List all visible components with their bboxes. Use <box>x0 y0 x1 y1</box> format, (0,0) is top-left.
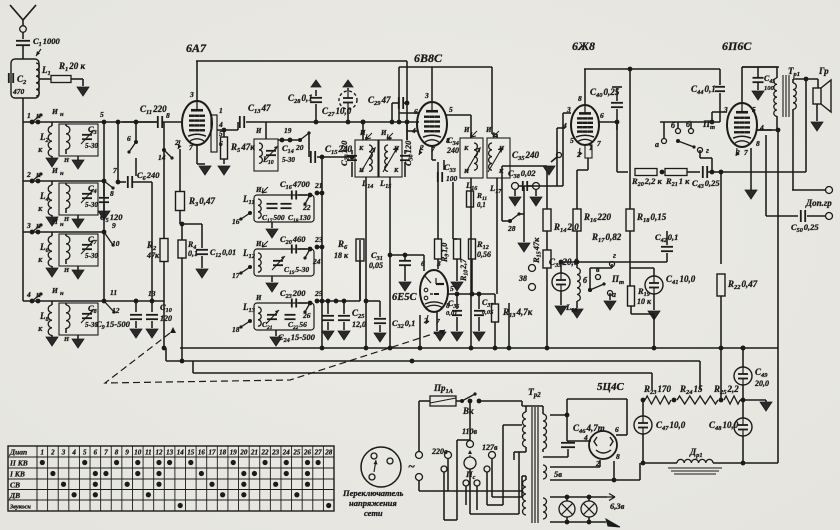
svg-text:Доп.гр: Доп.гр <box>805 198 832 208</box>
svg-text:23: 23 <box>271 448 280 456</box>
svg-text:Вк: Вк <box>462 406 474 416</box>
svg-text:5: 5 <box>83 448 87 456</box>
svg-text:8: 8 <box>115 448 119 456</box>
svg-text:470: 470 <box>12 87 25 96</box>
svg-text:И: И <box>485 126 492 134</box>
svg-text:10 к: 10 к <box>637 297 652 306</box>
svg-text:220в: 220в <box>431 447 448 456</box>
svg-text:5-30: 5-30 <box>282 156 295 164</box>
svg-text:38: 38 <box>518 274 527 283</box>
svg-text:н: н <box>60 111 64 118</box>
svg-text:н: н <box>60 290 64 297</box>
svg-text:И: И <box>255 186 262 194</box>
svg-text:К: К <box>358 145 364 152</box>
svg-text:12: 12 <box>155 448 163 456</box>
svg-text:12,0: 12,0 <box>352 320 366 329</box>
svg-text:5: 5 <box>100 110 104 119</box>
svg-text:Звукосн: Звукосн <box>9 504 31 511</box>
svg-text:4: 4 <box>71 448 76 456</box>
svg-text:240: 240 <box>446 146 459 155</box>
svg-text:7: 7 <box>189 143 193 152</box>
svg-text:17: 17 <box>232 271 240 280</box>
svg-text:8: 8 <box>166 111 170 120</box>
svg-text:К: К <box>37 257 43 264</box>
svg-text:13: 13 <box>148 289 156 298</box>
svg-text:24: 24 <box>312 257 321 266</box>
svg-text:16: 16 <box>198 448 206 456</box>
svg-text:19: 19 <box>230 448 238 456</box>
svg-text:10: 10 <box>134 448 142 456</box>
svg-text:3: 3 <box>26 221 31 230</box>
svg-text:8: 8 <box>110 189 114 198</box>
svg-text:5-30: 5-30 <box>85 142 98 150</box>
svg-text:И: И <box>255 240 262 248</box>
svg-text:4: 4 <box>26 290 31 299</box>
svg-text:6Е5С: 6Е5С <box>392 292 418 303</box>
svg-text:ДВ: ДВ <box>9 491 20 500</box>
svg-text:7: 7 <box>597 139 601 148</box>
svg-text:И: И <box>51 217 59 226</box>
svg-text:21: 21 <box>250 448 258 456</box>
svg-text:120: 120 <box>160 314 172 323</box>
svg-text:7: 7 <box>104 448 108 456</box>
svg-text:14: 14 <box>177 448 185 456</box>
svg-text:Н: Н <box>63 336 70 343</box>
svg-text:R1547к: R1547к <box>531 237 543 264</box>
svg-text:20: 20 <box>239 448 248 456</box>
svg-text:100: 100 <box>446 174 458 183</box>
svg-text:18: 18 <box>232 325 240 334</box>
svg-text:R91,0: R91,0 <box>440 243 450 263</box>
svg-text:5-30: 5-30 <box>85 201 98 209</box>
svg-text:И: И <box>51 107 59 116</box>
svg-text:К: К <box>463 145 469 152</box>
svg-text:6: 6 <box>615 425 619 434</box>
svg-text:I КВ: I КВ <box>9 470 25 479</box>
svg-text:6: 6 <box>414 107 418 116</box>
svg-text:7: 7 <box>113 166 117 175</box>
svg-text:3: 3 <box>189 90 194 99</box>
svg-text:1: 1 <box>27 111 31 120</box>
svg-text:110в: 110в <box>462 427 478 436</box>
svg-text:а: а <box>655 140 659 149</box>
svg-text:19: 19 <box>284 126 292 135</box>
svg-text:9: 9 <box>112 221 116 230</box>
svg-text:К: К <box>393 167 399 174</box>
svg-text:И: И <box>255 127 262 135</box>
svg-text:6,3в: 6,3в <box>610 501 625 511</box>
svg-text:К: К <box>37 206 43 213</box>
svg-text:Н: Н <box>35 292 42 299</box>
svg-text:Диап: Диап <box>9 448 27 457</box>
svg-text:20: 20 <box>295 143 304 152</box>
svg-text:18 к: 18 к <box>334 251 349 260</box>
svg-text:1: 1 <box>219 106 223 115</box>
svg-text:5: 5 <box>570 136 574 145</box>
svg-text:28: 28 <box>324 448 333 456</box>
svg-text:127в: 127в <box>482 443 498 452</box>
svg-text:28: 28 <box>507 224 516 233</box>
svg-text:11: 11 <box>145 448 152 456</box>
svg-text:25: 25 <box>292 448 301 456</box>
svg-text:6Ж8: 6Ж8 <box>572 39 595 53</box>
svg-text:4: 4 <box>218 120 223 129</box>
svg-text:5Ц4С: 5Ц4С <box>597 381 625 393</box>
svg-text:17: 17 <box>209 448 217 456</box>
svg-text:6: 6 <box>600 111 604 120</box>
svg-text:2: 2 <box>50 448 55 456</box>
svg-text:1: 1 <box>41 448 45 456</box>
svg-text:И: И <box>380 129 387 137</box>
svg-text:н: н <box>60 170 64 177</box>
svg-text:И: И <box>51 286 59 295</box>
svg-text:5в: 5в <box>554 469 562 479</box>
svg-text:6В8С: 6В8С <box>414 51 443 65</box>
svg-text:И: И <box>359 129 366 137</box>
svg-text:Н: Н <box>35 113 42 120</box>
svg-text:~: ~ <box>408 459 415 473</box>
svg-text:Н: Н <box>63 216 70 223</box>
svg-text:н: н <box>60 221 64 228</box>
svg-text:сети: сети <box>364 508 383 518</box>
svg-text:2: 2 <box>26 170 31 179</box>
svg-text:0,1: 0,1 <box>477 201 486 209</box>
svg-text:6: 6 <box>94 448 98 456</box>
svg-text:Н: Н <box>63 157 70 164</box>
svg-text:24: 24 <box>282 448 291 456</box>
svg-text:100: 100 <box>764 85 775 92</box>
svg-text:И: И <box>463 126 470 134</box>
svg-text:26: 26 <box>303 448 312 456</box>
svg-text:К: К <box>37 147 43 154</box>
svg-text:8: 8 <box>756 139 760 148</box>
svg-text:4: 4 <box>583 433 588 442</box>
svg-text:20,0: 20,0 <box>754 379 769 388</box>
svg-text:15: 15 <box>187 448 195 456</box>
svg-text:47к: 47к <box>146 251 160 260</box>
svg-text:5: 5 <box>752 105 756 114</box>
svg-text:18: 18 <box>219 448 227 456</box>
svg-text:3: 3 <box>424 91 429 100</box>
svg-text:6: 6 <box>127 134 131 143</box>
svg-text:0,05: 0,05 <box>482 309 494 316</box>
svg-text:г: г <box>706 146 709 155</box>
svg-text:0,05: 0,05 <box>369 261 383 270</box>
svg-text:напряжения: напряжения <box>349 498 397 508</box>
svg-text:И: И <box>51 166 59 175</box>
svg-text:22: 22 <box>261 448 270 456</box>
svg-text:27: 27 <box>314 448 323 456</box>
svg-text:К: К <box>37 326 43 333</box>
svg-text:9: 9 <box>125 448 129 456</box>
svg-text:И: И <box>255 294 262 302</box>
svg-text:Н: Н <box>63 267 70 274</box>
svg-text:К: К <box>498 168 504 175</box>
svg-text:26: 26 <box>302 311 311 320</box>
svg-text:13: 13 <box>166 448 174 456</box>
svg-text:0,01: 0,01 <box>446 310 457 317</box>
svg-text:II КВ: II КВ <box>9 459 28 468</box>
svg-text:5: 5 <box>449 105 453 114</box>
svg-text:0,56: 0,56 <box>477 250 491 259</box>
svg-text:Н: Н <box>35 172 42 179</box>
svg-text:8: 8 <box>616 452 620 461</box>
svg-text:11: 11 <box>110 288 117 297</box>
svg-text:г: г <box>613 251 616 260</box>
svg-text:Гр: Гр <box>818 66 829 76</box>
svg-text:Переключатель: Переключатель <box>342 488 403 498</box>
svg-text:7: 7 <box>744 148 748 157</box>
svg-text:6А7: 6А7 <box>186 41 207 55</box>
svg-text:5-30: 5-30 <box>85 252 98 260</box>
svg-text:СВ: СВ <box>10 481 20 490</box>
svg-text:Н: Н <box>35 223 42 230</box>
svg-text:6П6С: 6П6С <box>722 39 752 53</box>
svg-text:С28120: С28120 <box>339 140 351 166</box>
svg-text:8: 8 <box>578 94 582 103</box>
svg-text:в: в <box>596 265 600 274</box>
svg-text:3: 3 <box>61 448 66 456</box>
svg-text:22: 22 <box>302 203 311 212</box>
svg-text:16: 16 <box>232 217 240 226</box>
